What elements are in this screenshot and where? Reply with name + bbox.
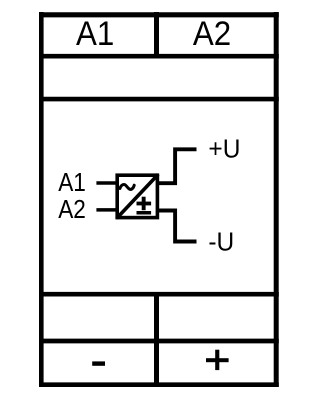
svg-text:A1: A1: [58, 169, 86, 198]
converter U1 diagonal: [117, 174, 159, 218]
wire : top terminal divider between A1 and A2: [154, 12, 159, 59]
svg-text:A1: A1: [76, 14, 114, 53]
wire -U output bracket: [156, 211, 197, 242]
wire : left border: [39, 12, 44, 387]
svg-text:-U: -U: [208, 228, 234, 257]
terminal minus symbol: [92, 361, 105, 365]
svg-text:A2: A2: [193, 14, 231, 53]
wire : separator below schematic area: [39, 292, 279, 297]
wire A1 input: [96, 181, 118, 185]
wire : top border: [39, 12, 279, 17]
terminal plus symbol: [206, 350, 229, 370]
wire : separator above schematic area: [39, 97, 279, 102]
module outline frame: [39, 12, 279, 387]
converter U1 box: [117, 175, 157, 217]
svg-text:+U: +U: [208, 135, 240, 164]
wire A2 input: [96, 208, 118, 212]
converter U1 AC tilde symbol: [120, 185, 134, 190]
wire : bottom border: [39, 382, 279, 387]
wire : separator under terminal row A1/A2: [39, 54, 279, 59]
wire : separator above -/+ row: [39, 339, 279, 344]
svg-text:A2: A2: [58, 196, 86, 225]
wire +U output bracket: [156, 149, 197, 183]
converter U1 plus-minus symbol: [137, 197, 152, 215]
wire : right border: [274, 12, 279, 387]
wire : bottom terminal divider between - and +: [154, 292, 159, 387]
